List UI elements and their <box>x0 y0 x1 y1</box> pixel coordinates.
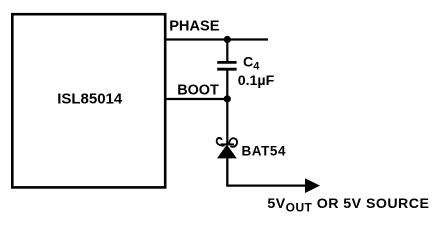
wire C4 bottom plate to BOOT junction <box>226 69 228 99</box>
svg-text:BAT54: BAT54 <box>242 143 287 158</box>
wire PHASE pin to net <box>166 38 269 40</box>
capacitor C4 top plate <box>217 61 236 64</box>
svg-text:BOOT: BOOT <box>177 82 219 98</box>
IC U1 ISL85014 box <box>12 14 165 187</box>
svg-text:C4: C4 <box>243 55 260 73</box>
wire BOOT junction down to diode cathode <box>226 99 228 144</box>
wire BOOT pin to junction <box>166 98 228 100</box>
svg-text:ISL85014: ISL85014 <box>57 90 123 107</box>
svg-text:0.1µF: 0.1µF <box>238 73 275 89</box>
wire diode anode down and right to arrow <box>227 158 305 186</box>
capacitor C4 bottom plate <box>217 68 236 71</box>
svg-text:PHASE: PHASE <box>169 18 220 34</box>
node junction PHASE/C4 <box>224 36 231 43</box>
wire junction down to C4 top plate <box>226 40 228 62</box>
svg-text:5VOUT OR 5V SOURCE: 5VOUT OR 5V SOURCE <box>267 196 429 215</box>
diode D1 BAT54 schottky cathode bar <box>217 138 237 147</box>
arrowhead to 5V source <box>305 178 320 193</box>
diode D1 BAT54 triangle (anode) <box>217 145 237 159</box>
node junction BOOT/diode <box>224 95 231 102</box>
